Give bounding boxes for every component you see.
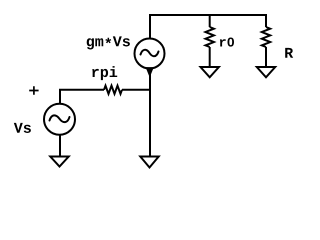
- ground (center, below current source): [140, 157, 158, 168]
- label r0: [220, 37, 234, 46]
- wire r0 top stub: [209, 14, 211, 27]
- label gm*Vs: [87, 36, 130, 49]
- wire R bottom stub: [265, 47, 267, 67]
- wire top rail from current source to R: [150, 14, 266, 16]
- wire Vs bottom to ground: [59, 135, 61, 157]
- resistor rpi: [104, 86, 122, 94]
- ground (below r0): [201, 67, 219, 77]
- label Vs: [14, 123, 31, 133]
- voltage source Vs: [44, 104, 75, 135]
- resistor R: [262, 27, 270, 47]
- plus sign polarity marker: [29, 86, 38, 94]
- wire rpi right terminal to center node: [122, 89, 151, 91]
- label R: [285, 48, 293, 58]
- wire R top stub: [265, 14, 267, 27]
- current source gm*Vs: [135, 39, 165, 77]
- resistor r0: [206, 27, 214, 47]
- wire r0 bottom stub: [209, 47, 211, 67]
- wire current source top stub: [149, 14, 151, 39]
- ground (below R): [257, 67, 275, 77]
- label rpi: [92, 66, 117, 80]
- wire from Vs top corner to rpi left terminal: [60, 90, 104, 104]
- ground (below Vs): [50, 157, 68, 167]
- wire current source output down to ground: [149, 69, 151, 156]
